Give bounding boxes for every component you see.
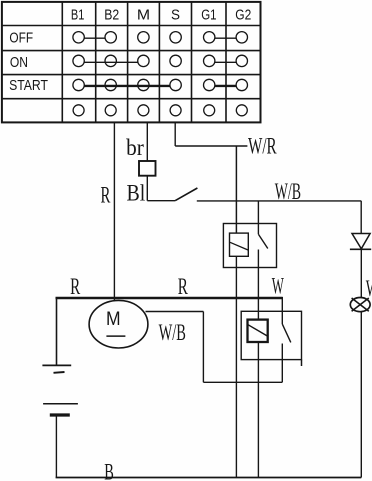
table column line M|S	[158, 2, 160, 122]
terminal circle B2 OFF	[105, 32, 116, 43]
svg-text:W: W	[272, 274, 284, 299]
terminal circle S OFF	[170, 32, 181, 43]
terminal circle B1 START	[73, 79, 84, 90]
terminal circle S ON	[170, 55, 181, 66]
diode D1 triangle	[352, 234, 370, 249]
svg-text:Bl: Bl	[127, 180, 146, 205]
svg-text:B: B	[104, 459, 114, 481]
relay U2 coil box bold	[248, 320, 268, 342]
OFF row link G1-G2	[215, 37, 237, 39]
svg-text:W: W	[366, 276, 372, 301]
starter motor M1 body	[89, 300, 148, 348]
table row line START|empty	[2, 98, 261, 100]
terminal circle G1 bottom row	[204, 105, 215, 116]
battery BT1 negative plate	[50, 413, 70, 416]
table column line B2|M	[127, 2, 129, 122]
wire relay U1 coil down to ground bus	[235, 256, 237, 477]
svg-text:ON: ON	[10, 54, 28, 71]
relay U2 box corner tail	[301, 360, 303, 366]
terminal circle M bottom row	[138, 105, 149, 116]
relay U1 coil box	[230, 233, 249, 256]
svg-text:br: br	[126, 135, 144, 160]
wire W/B run right	[197, 200, 361, 202]
terminal circle B1 OFF	[73, 32, 84, 43]
diode D1 cathode bar	[350, 248, 371, 250]
table row line OFF|ON	[2, 50, 261, 52]
wire B2 terminal down to battery bus	[113, 122, 115, 301]
relay U1 coil diagonal	[230, 242, 248, 250]
switch S1 fixed lead left	[147, 200, 175, 202]
wire W/R down to relay U1 coil	[235, 146, 237, 233]
terminal circle G1 ON	[204, 55, 215, 66]
terminal circle G1 START	[204, 79, 215, 90]
terminal circle M START	[138, 79, 149, 90]
terminal circle B1 bottom row	[73, 105, 84, 116]
svg-text:W/R: W/R	[248, 133, 277, 158]
table column line G1|G2	[225, 2, 227, 122]
wire S terminal down	[174, 122, 176, 146]
ignition switch connection table: outer border	[2, 2, 261, 123]
switch S1 blade	[175, 188, 197, 201]
terminal circle G1 OFF	[204, 32, 215, 43]
table column line B1|B2	[95, 2, 97, 122]
relay U2 coil top lead from bus	[257, 298, 259, 320]
relay U2 switch top lead from bus W	[281, 297, 283, 324]
terminal circle M ON	[138, 55, 149, 66]
OFF row link B1-B2	[84, 37, 105, 39]
svg-text:M: M	[137, 6, 150, 23]
fuse br body	[139, 161, 156, 176]
relay U2 coil diagonal	[248, 325, 267, 336]
relay U2 coil bottom lead to ground bus	[257, 342, 259, 478]
wire diode to lamp	[360, 249, 362, 297]
svg-text:S: S	[171, 6, 180, 23]
terminal circle G2 ON	[236, 55, 247, 66]
svg-text:W/B: W/B	[275, 179, 301, 204]
wire motor lead right to relay U2 contact	[203, 381, 282, 383]
terminal circle M OFF	[138, 32, 149, 43]
svg-text:START: START	[9, 77, 48, 94]
ground G1 plate	[42, 364, 71, 366]
terminal circle B2 START	[105, 79, 116, 90]
motor M underline	[106, 335, 125, 337]
terminal circle G2 bottom row	[236, 105, 247, 116]
ON row link B1-M through B2	[84, 61, 138, 63]
terminal circle G2 OFF	[236, 32, 247, 43]
lamp L1 cross stroke 1	[352, 298, 369, 311]
table row line ON|START	[2, 74, 261, 76]
wire lamp down to ground bus	[360, 312, 362, 478]
wire motor lead down	[202, 312, 204, 383]
wire battery negative down	[55, 415, 57, 478]
relay U2 box	[241, 311, 301, 359]
wire M terminal down to fuse	[146, 122, 148, 161]
lamp L1 body	[350, 298, 370, 312]
starter motor output lead W/B	[146, 311, 204, 313]
svg-text:OFF: OFF	[9, 30, 33, 47]
battery BT1 positive plate	[43, 403, 78, 405]
svg-text:R: R	[178, 274, 189, 299]
relay U1 switch blade	[258, 234, 267, 248]
wire fuse to ignition contact	[146, 176, 148, 201]
relay U2 switch blade	[282, 324, 291, 342]
START row link G1-G2 thick	[215, 85, 237, 87]
table column line S|G1	[191, 2, 193, 122]
svg-text:G2: G2	[235, 6, 251, 23]
wire S run right to W/R	[175, 145, 247, 147]
wire bus left end down to chassis ground	[56, 298, 58, 365]
terminal circle B2 ON	[105, 55, 116, 66]
svg-text:W/B: W/B	[159, 320, 186, 345]
terminal circle B1 ON	[73, 55, 84, 66]
terminal circle S START	[170, 79, 181, 90]
svg-text:B2: B2	[104, 6, 119, 23]
relay U1 switch top lead	[257, 201, 259, 234]
lamp L1 cross stroke 2	[352, 298, 369, 311]
relay U2 switch bottom lead	[281, 344, 283, 383]
ground G1 lower stroke	[54, 371, 65, 374]
ground bus B bottom	[56, 477, 362, 479]
terminal circle B2 bottom row	[105, 105, 116, 116]
svg-text:R: R	[101, 182, 111, 207]
relay U1 switch bottom lead to bus	[257, 250, 259, 299]
table column line label|B1	[61, 2, 63, 122]
terminal circle G2 START	[236, 79, 247, 90]
svg-text:B1: B1	[71, 6, 85, 23]
ON row link G1-G2	[215, 61, 237, 63]
wire W/B down right side to diode	[360, 201, 362, 234]
svg-text:M: M	[106, 308, 121, 330]
battery positive bus R thick	[56, 297, 283, 299]
svg-text:G1: G1	[201, 6, 216, 23]
START row link B1-S through B2 M thick	[84, 85, 170, 87]
relay U1 box	[223, 224, 276, 268]
table row line header|OFF	[2, 25, 261, 27]
svg-text:R: R	[70, 274, 81, 299]
terminal circle S bottom row	[170, 105, 181, 116]
